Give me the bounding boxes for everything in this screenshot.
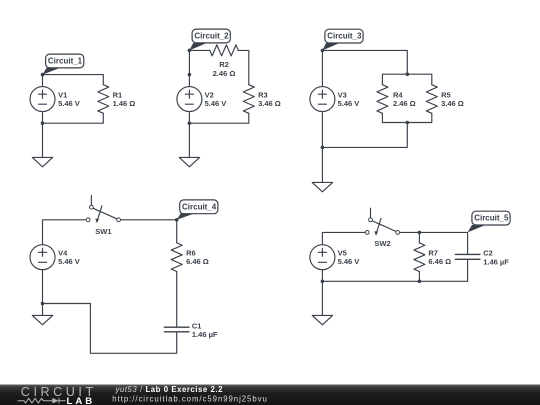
callout Circuit_1 box [46,54,84,68]
svg-text:Circuit_2: Circuit_2 [194,32,229,41]
wire c5 R7 top lead [418,232,420,243]
svg-text:V3: V3 [338,90,347,99]
switch SW2 lever [372,221,396,232]
switch SW1 actuator line [98,206,102,219]
svg-text:5.46 V: 5.46 V [205,99,227,108]
switch SW1 throw stub [90,196,92,206]
wire c4 bottom return: C1 bottom around to V4 bottom [43,304,177,354]
switch SW1 right terminal [117,218,121,222]
node c4 bottom-left junction [41,302,45,306]
wire c5 top-right: SW2 to C2 corner [400,232,468,254]
capacitor C1 bottom plate [164,331,189,333]
switch SW2 actuator line [377,218,381,231]
resistor R5 [426,85,437,114]
wire c5 bottom: V5 bottom across to C2 bottom [322,259,467,281]
svg-text:1.46 µF: 1.46 µF [192,330,218,339]
wire c3 top bar of parallel resistors [382,74,431,85]
callout Circuit_5 box [472,211,510,225]
callout Circuit_1 pointer [43,68,61,75]
svg-text:V5: V5 [338,249,347,258]
resistor R3 [243,85,254,114]
callout Circuit_2 box [192,29,230,43]
svg-text:1.46 Ω: 1.46 Ω [113,99,136,108]
ground c2 [179,157,199,166]
wire c2 left: V2 top to R2 left [189,50,209,86]
svg-text:V4: V4 [58,249,68,258]
ground c4 [32,315,52,324]
wire c5 R7 bottom lead [418,272,420,282]
resistor R7 [414,243,425,272]
svg-text:LAB: LAB [67,396,96,405]
capacitor C2 top plate [455,253,480,255]
voltage source V4 [30,245,55,270]
svg-text:V1: V1 [58,90,67,99]
footer logo resistor-diode line [18,398,66,403]
svg-text:5.46 V: 5.46 V [338,257,360,266]
voltage source V3 [310,87,335,112]
switch SW1 lever [93,208,117,219]
node c2 bottom [188,121,192,125]
svg-text:R7: R7 [428,249,438,258]
wire c1 bottom: V1 bottom to R1 bottom [43,112,104,124]
svg-text:Circuit_5: Circuit_5 [474,214,509,223]
svg-text:1.46 µF: 1.46 µF [483,257,509,266]
node c3 bank top [406,72,410,76]
wire c1 ground lead [42,123,44,157]
svg-text:R4: R4 [393,90,403,99]
svg-text:C1: C1 [192,321,202,330]
svg-text:5.46 V: 5.46 V [58,257,80,266]
node c5 bottom-left [321,280,325,284]
wire c3 ground lead [321,147,323,182]
ground c1 [32,157,52,166]
svg-text:6.46 Ω: 6.46 Ω [186,257,209,266]
switch SW2 actuator arrowhead [374,231,378,236]
capacitor C1 top plate [164,326,189,328]
wire c2 ground lead [188,123,190,157]
wire c3 bottom: bank down and left to V3 bottom [322,112,407,148]
ground c3 [312,182,332,191]
wire c4 ground stub [42,304,44,316]
callout Circuit_3 pointer [322,43,339,50]
svg-text:Circuit_4: Circuit_4 [182,202,217,211]
svg-text:2.46 Ω: 2.46 Ω [213,69,236,78]
svg-text:SW2: SW2 [374,239,390,248]
svg-text:R1: R1 [113,90,123,99]
svg-text:V2: V2 [205,90,214,99]
voltage source V1 [30,87,55,112]
svg-text:C2: C2 [483,249,493,258]
svg-text:2.46 Ω: 2.46 Ω [393,99,416,108]
footer logo diode triangle [52,398,58,404]
svg-text:yut53 / Lab 0 Exercise 2.2: yut53 / Lab 0 Exercise 2.2 [115,385,224,394]
capacitor C2 bottom plate [455,258,480,260]
svg-text:Circuit_3: Circuit_3 [327,32,362,41]
svg-text:R3: R3 [258,90,268,99]
wire c3 top: V3 top across and down to parallel bank [322,50,407,86]
switch SW2 right terminal [396,231,400,235]
resistor R4 [377,85,388,114]
node c2 mid-left junction [188,73,192,77]
voltage source V2 [177,87,202,112]
wire c2 bottom: V2 bottom to R3 bottom [189,112,248,124]
svg-text:R5: R5 [441,90,451,99]
node c1 bottom-left [41,121,45,125]
callout Circuit_5 pointer [468,225,486,232]
callout Circuit_4 pointer [177,214,195,220]
wire c4 top-right: SW1 to R6 top [121,220,177,243]
svg-text:R6: R6 [186,249,196,258]
callout Circuit_3 box [325,29,363,43]
wire c4 top-left: V4 top to SW1 [43,220,87,245]
switch SW2 upper terminal [369,218,373,222]
voltage source V5 [310,245,335,270]
switch SW1 actuator arrowhead [95,219,99,224]
svg-text:5.46 V: 5.46 V [338,99,360,108]
switch SW2 left terminal [365,231,369,235]
wire c4 V4 bottom lead [42,270,44,304]
callout Circuit_4 box [180,200,218,214]
resistor R6 [171,243,182,272]
wire c3 bottom bar of parallel resistors [382,113,431,122]
callout Circuit_2 pointer [189,43,206,50]
svg-text:R2: R2 [219,60,229,69]
wire c5 ground stub [321,281,323,315]
resistor R2 (horizontal) [210,45,239,56]
svg-text:SW1: SW1 [95,227,111,236]
switch SW2 throw stub [370,208,372,218]
wire c1 top: V1 top to R1 top [43,75,104,87]
svg-text:5.46 V: 5.46 V [58,99,80,108]
svg-text:3.46 Ω: 3.46 Ω [441,99,464,108]
node c4 R6 top [175,218,179,222]
svg-text:http://circuitlab.com/c59n99nj: http://circuitlab.com/c59n99nj25bvu [112,395,267,404]
node c3 bottom-left [321,146,325,150]
svg-text:6.46 Ω: 6.46 Ω [428,257,451,266]
node c5 R7 top [418,231,422,235]
svg-text:Circuit_1: Circuit_1 [48,57,83,66]
switch SW1 upper terminal [90,205,94,209]
node c3 bank bottom [406,121,410,125]
node c5 R7 bottom [418,280,422,284]
node c1 top-left [41,73,45,77]
ground c5 [312,315,332,324]
wire c4 R6 to C1 [176,272,178,328]
svg-text:3.46 Ω: 3.46 Ω [258,99,281,108]
resistor R1 [98,85,109,114]
wire c2 right: R2 right to R3 top [238,50,249,84]
node c3 top-left [321,49,325,53]
switch SW1 left terminal [86,218,90,222]
node c2 top [188,49,192,53]
footer background bar [0,385,540,405]
wire c5 top-left: V5 top to SW2 [322,232,365,244]
